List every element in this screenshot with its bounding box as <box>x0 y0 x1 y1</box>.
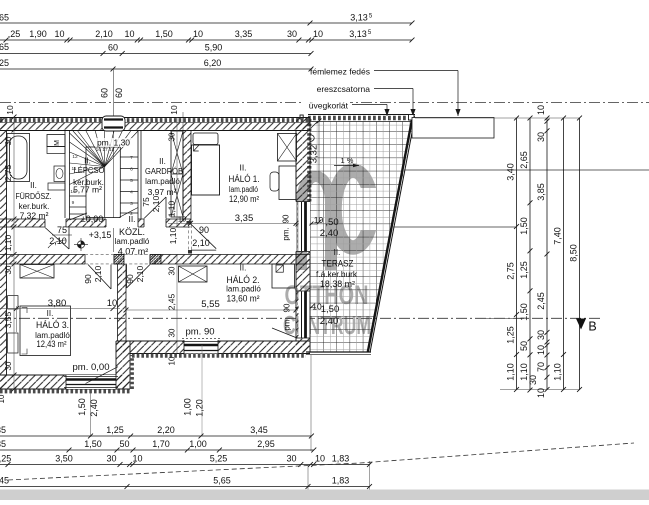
svg-text:45: 45 <box>0 476 9 486</box>
svg-text:1,83: 1,83 <box>332 454 350 464</box>
gardrob door <box>144 218 166 228</box>
halo3 dim 3,80 / 10 <box>0 308 120 310</box>
svg-text:1,20: 1,20 <box>195 399 205 417</box>
halo2 dims <box>126 309 296 311</box>
svg-text:50: 50 <box>119 439 129 449</box>
svg-text:10: 10 <box>124 29 134 39</box>
right wall dotted face <box>307 119 311 202</box>
svg-text:5: 5 <box>130 178 133 184</box>
svg-text:12,90 m²: 12,90 m² <box>229 194 259 204</box>
svg-text:10: 10 <box>178 215 186 224</box>
chain E <box>579 118 581 390</box>
svg-text:f.á.ker.burk: f.á.ker.burk <box>316 270 358 279</box>
bottom dim row 4 <box>0 486 370 488</box>
wall bath/stairs <box>64 130 66 219</box>
svg-text:pm.: pm. <box>282 227 291 240</box>
svg-text:13,60 m²: 13,60 m² <box>227 294 260 304</box>
door opening to HALO3 <box>85 254 114 266</box>
window pm90 in middle bottom wall <box>184 340 218 355</box>
svg-text:30: 30 <box>536 132 546 142</box>
svg-text:2,20: 2,20 <box>157 425 175 435</box>
terrace inner corner tick <box>311 121 318 128</box>
svg-text:60: 60 <box>108 43 118 53</box>
svg-text:3,45: 3,45 <box>250 425 268 435</box>
dashed boundary line <box>8 443 634 480</box>
svg-text:3,40: 3,40 <box>506 163 516 181</box>
centerline upper <box>0 102 649 104</box>
svg-text:ereszcsatorna: ereszcsatorna <box>317 84 371 94</box>
gardrob right dim x=177 <box>176 117 178 227</box>
step wall <box>116 341 130 389</box>
svg-text:3,85: 3,85 <box>536 183 546 201</box>
HALO3 nightstands <box>8 296 18 309</box>
svg-text:90: 90 <box>282 214 291 223</box>
svg-text:25: 25 <box>0 58 9 68</box>
svg-text:30: 30 <box>4 265 13 274</box>
stairs inner core rect <box>86 147 120 218</box>
svg-text:30: 30 <box>286 454 296 464</box>
terrace door dashed guides <box>296 202 298 251</box>
svg-text:1,10: 1,10 <box>506 363 516 381</box>
terrace door/window lower (HALO2) <box>299 292 310 339</box>
svg-text:10: 10 <box>536 388 546 398</box>
bottom extension lines <box>90 389 92 437</box>
svg-text:75: 75 <box>57 225 67 235</box>
svg-text:3: 3 <box>130 201 133 207</box>
chain A <box>516 118 518 390</box>
svg-text:II.: II. <box>334 248 341 257</box>
svg-text:16 17 18: 16 17 18 <box>96 147 115 153</box>
interior dim line x=14 <box>13 117 15 389</box>
svg-text:12: 12 <box>72 154 78 160</box>
svg-text:7: 7 <box>130 155 133 161</box>
stairs central line <box>104 167 106 218</box>
HALO1 bed <box>192 145 220 195</box>
svg-text:5,77 m²: 5,77 m² <box>73 185 102 195</box>
svg-text:6,20: 6,20 <box>204 58 222 68</box>
svg-text:1,90: 1,90 <box>29 29 47 39</box>
svg-text:1,50: 1,50 <box>77 398 87 416</box>
svg-text:10: 10 <box>168 356 177 365</box>
svg-text:pm. 90: pm. 90 <box>185 327 214 338</box>
svg-text:üvegkorlát: üvegkorlát <box>309 101 349 111</box>
svg-text:30: 30 <box>4 361 13 370</box>
pier dark 2 <box>150 255 161 265</box>
vertical guide x=113 with 60/60 labels <box>112 69 114 252</box>
svg-text:±0,00: ±0,00 <box>81 214 103 224</box>
svg-text:1,25: 1,25 <box>106 425 124 435</box>
right chains connector top <box>415 117 580 119</box>
svg-text:II.: II. <box>128 214 135 224</box>
bottom dim row 1 <box>0 435 311 437</box>
terrace dim 3,32 <box>318 121 320 222</box>
svg-text:II.: II. <box>47 309 54 318</box>
svg-text:FÜRDŐSZ.: FÜRDŐSZ. <box>16 192 52 201</box>
svg-text:30: 30 <box>536 330 546 340</box>
HALO3 bed <box>20 306 71 356</box>
svg-text:2,40: 2,40 <box>89 399 99 417</box>
svg-text:1,25: 1,25 <box>506 326 516 344</box>
right chains connector mid <box>480 317 517 319</box>
svg-text:3,35: 3,35 <box>235 29 253 39</box>
svg-text:10: 10 <box>5 105 15 115</box>
svg-text:3,35: 3,35 <box>235 213 254 224</box>
svg-text:10: 10 <box>536 345 546 355</box>
svg-text:10: 10 <box>169 105 179 115</box>
svg-text:30: 30 <box>287 29 297 39</box>
svg-text:1,70: 1,70 <box>152 439 170 449</box>
svg-text:3,50: 3,50 <box>55 454 73 464</box>
svg-text:1,50: 1,50 <box>84 439 102 449</box>
small arc at terrace corner <box>311 135 315 142</box>
svg-text:3,13: 3,13 <box>349 29 367 39</box>
svg-text:3,55: 3,55 <box>3 311 13 328</box>
svg-text:2,10: 2,10 <box>192 238 210 248</box>
svg-text:pm.: pm. <box>283 317 292 330</box>
svg-text:1,25: 1,25 <box>519 261 529 279</box>
left exterior wall <box>0 118 7 390</box>
svg-text:60: 60 <box>114 88 124 98</box>
stairs left flight treads <box>70 167 105 185</box>
svg-text:1,50: 1,50 <box>155 29 173 39</box>
svg-text:1,10: 1,10 <box>168 227 178 244</box>
svg-text:50: 50 <box>519 341 529 351</box>
stairs outer boundary <box>70 159 97 161</box>
corner bump <box>300 115 303 119</box>
right chains connector bottom <box>500 389 580 391</box>
survey marker <box>77 241 84 248</box>
halo3 dim line x=16.4 <box>15 306 17 332</box>
svg-text:10: 10 <box>107 298 118 309</box>
svg-text:2,45: 2,45 <box>536 292 546 310</box>
svg-text:4: 4 <box>130 190 133 196</box>
svg-text:2,10: 2,10 <box>95 29 113 39</box>
svg-text:30: 30 <box>4 136 13 145</box>
bath small fixture <box>48 183 65 190</box>
svg-text:lam.padló: lam.padló <box>145 177 180 186</box>
washing machine M <box>47 135 65 147</box>
terrace door upper (HALO1) <box>296 201 310 203</box>
stairs winder fan <box>70 133 105 167</box>
pier dark 1 <box>114 255 124 265</box>
wall stairs/gardrob <box>137 130 139 219</box>
svg-text:30: 30 <box>168 266 177 275</box>
HALO1 desk and chair <box>279 166 296 200</box>
svg-text:1,10: 1,10 <box>167 200 177 217</box>
horizontal line right of terrace y170 <box>404 169 649 171</box>
svg-text:10: 10 <box>193 29 203 39</box>
svg-text:2,40: 2,40 <box>320 316 339 327</box>
upper step wall halo3/halo2 <box>118 264 127 341</box>
svg-text:2,45: 2,45 <box>167 293 177 310</box>
svg-text:3,80: 3,80 <box>48 298 67 309</box>
dim row 3 <box>0 53 311 55</box>
dim row 2 <box>0 39 412 41</box>
svg-text:,50: ,50 <box>325 217 338 228</box>
svg-text:2,65: 2,65 <box>519 151 529 169</box>
svg-text:lam.padló: lam.padló <box>115 237 150 246</box>
svg-text:M: M <box>54 140 61 146</box>
svg-text:KÖZL.: KÖZL. <box>119 227 145 237</box>
svg-text:2,10: 2,10 <box>93 265 103 282</box>
svg-text:pm. 0,00: pm. 0,00 <box>73 362 110 373</box>
svg-text:4,07 m²: 4,07 m² <box>118 247 149 257</box>
wall gardrob/halo1 (V3) <box>183 130 191 221</box>
terrace corner post <box>409 115 415 121</box>
svg-text:1,10: 1,10 <box>553 363 563 381</box>
svg-text:90: 90 <box>125 274 135 284</box>
svg-text:2,10: 2,10 <box>135 265 145 282</box>
bath sink <box>54 166 65 182</box>
svg-text:HÁLÓ 1.: HÁLÓ 1. <box>229 174 260 185</box>
svg-text:pm. 1,30: pm. 1,30 <box>97 138 130 148</box>
svg-text:1,83: 1,83 <box>332 476 350 486</box>
svg-text:HÁLÓ 3.: HÁLÓ 3. <box>36 320 69 331</box>
svg-text:5,90: 5,90 <box>205 43 223 53</box>
svg-text:1,50: 1,50 <box>519 217 529 235</box>
halo1 dim 3,35 <box>168 222 296 224</box>
terrace floor grid <box>310 122 414 353</box>
svg-text:30: 30 <box>168 132 177 141</box>
svg-text:10: 10 <box>536 105 546 115</box>
bottom dim row 3 <box>0 464 370 466</box>
svg-text:II.: II. <box>240 264 247 273</box>
svg-text:12,43 m²: 12,43 m² <box>37 339 67 349</box>
horizontal line right of terrace y227 <box>393 226 517 228</box>
bottom gray strip <box>0 490 649 501</box>
svg-text:TERASZ: TERASZ <box>322 259 354 270</box>
bath door leaf <box>45 228 69 250</box>
svg-text:LÉPCSŐ: LÉPCSŐ <box>74 165 105 175</box>
svg-text:5,25: 5,25 <box>210 454 228 464</box>
section marker B <box>576 319 586 330</box>
svg-text:30: 30 <box>106 454 116 464</box>
svg-text:9: 9 <box>72 200 75 206</box>
chain C <box>546 118 548 390</box>
svg-text:,25: ,25 <box>0 454 11 464</box>
top exterior wall <box>0 122 310 130</box>
dim row 1 <box>0 22 412 24</box>
svg-text:8,50: 8,50 <box>569 244 579 262</box>
bottom walls dotted face <box>0 389 131 393</box>
terrace right edge railing <box>370 117 415 353</box>
svg-text:+3,15: +3,15 <box>89 230 112 240</box>
leader uvegkorlat <box>304 100 350 109</box>
svg-text:5,65: 5,65 <box>213 476 231 486</box>
svg-text:65: 65 <box>0 42 9 52</box>
band2 wall y254.5 <box>0 255 310 265</box>
door KOZL to HALO1 <box>187 221 192 225</box>
bath door opening <box>45 218 66 228</box>
svg-text:GARDRÓB: GARDRÓB <box>145 166 183 176</box>
svg-text:90: 90 <box>199 225 209 235</box>
svg-text:1,00: 1,00 <box>183 398 193 416</box>
svg-text:lam.padló: lam.padló <box>229 185 258 194</box>
svg-text:1 %: 1 % <box>341 156 354 165</box>
svg-text:35: 35 <box>0 425 6 435</box>
roof rectangle femlemez <box>412 118 494 139</box>
svg-text:90: 90 <box>283 303 292 312</box>
svg-text:2,10: 2,10 <box>49 236 67 246</box>
svg-text:10: 10 <box>0 394 6 403</box>
svg-text:35: 35 <box>0 439 6 449</box>
svg-text:,25: ,25 <box>8 29 21 39</box>
svg-text:fémlemez fedés: fémlemez fedés <box>310 67 370 77</box>
svg-text:30: 30 <box>168 328 177 337</box>
stairs right flight treads <box>120 156 138 158</box>
svg-text:65: 65 <box>0 13 9 23</box>
svg-text:60: 60 <box>100 88 110 98</box>
svg-text:75: 75 <box>141 197 151 207</box>
band1 wall below bath+stairs <box>0 219 191 227</box>
HALO3 wardrobe <box>20 265 54 279</box>
HALO2 terrace door swing <box>272 328 297 338</box>
svg-text:2,75: 2,75 <box>506 262 516 280</box>
chain D <box>563 118 565 390</box>
svg-text:lam.padló: lam.padló <box>226 285 261 294</box>
svg-text:2,95: 2,95 <box>257 439 275 449</box>
right exterior wall (to terrace) <box>296 118 310 202</box>
svg-text:II.: II. <box>30 181 37 190</box>
dim row 4 <box>0 68 311 70</box>
stairs bottom diagonals <box>119 208 138 218</box>
roof window symbol <box>102 116 125 131</box>
svg-text:3,97 m²: 3,97 m² <box>148 187 177 197</box>
gardrob wardrobe column <box>171 131 183 217</box>
svg-text:1,00: 1,00 <box>189 439 207 449</box>
svg-text:1,10: 1,10 <box>3 234 13 251</box>
watermark OC logo <box>302 171 372 271</box>
svg-text:10: 10 <box>314 215 324 225</box>
svg-text:7,40: 7,40 <box>553 227 563 245</box>
HALO1 wardrobe <box>278 134 297 162</box>
door opening 2 <box>124 254 150 266</box>
bottom wall middle (under HALO2) <box>116 341 310 354</box>
svg-text:II.: II. <box>239 163 246 173</box>
stairs label pm 1,30 <box>95 138 133 147</box>
svg-text:B: B <box>588 320 596 334</box>
HALO2 wardrobe <box>179 266 208 282</box>
svg-text:70: 70 <box>536 362 546 372</box>
bottom wall (HALO 3) <box>0 375 130 389</box>
svg-text:1,50: 1,50 <box>321 304 340 315</box>
svg-text:10: 10 <box>54 29 64 39</box>
svg-text:II.: II. <box>159 157 166 166</box>
terrace bottom edge <box>306 351 371 353</box>
svg-text:10: 10 <box>315 454 325 464</box>
terrace top railing <box>308 114 415 116</box>
svg-text:1,50: 1,50 <box>519 303 529 321</box>
centerline through plan <box>0 317 600 319</box>
svg-text:3,13: 3,13 <box>350 13 368 23</box>
svg-text:2,10: 2,10 <box>151 195 161 212</box>
window in HALO3 bottom wall <box>66 375 116 389</box>
svg-text:2,75: 2,75 <box>3 164 13 181</box>
svg-text:5,55: 5,55 <box>201 299 220 310</box>
chain B <box>529 118 531 390</box>
svg-text:2,40: 2,40 <box>320 228 339 239</box>
svg-text:10: 10 <box>132 454 142 464</box>
bottom dim row 2 <box>0 449 314 451</box>
bathtub <box>7 134 30 182</box>
svg-text:7,32 m²: 7,32 m² <box>20 211 49 221</box>
svg-text:30: 30 <box>528 375 538 385</box>
stairs bottom opening <box>106 218 138 228</box>
svg-text:6: 6 <box>130 167 133 173</box>
HALO2 desk <box>272 264 294 288</box>
svg-text:18,38 m²: 18,38 m² <box>320 279 355 289</box>
svg-text:10: 10 <box>313 29 323 39</box>
svg-text:90: 90 <box>83 274 93 284</box>
